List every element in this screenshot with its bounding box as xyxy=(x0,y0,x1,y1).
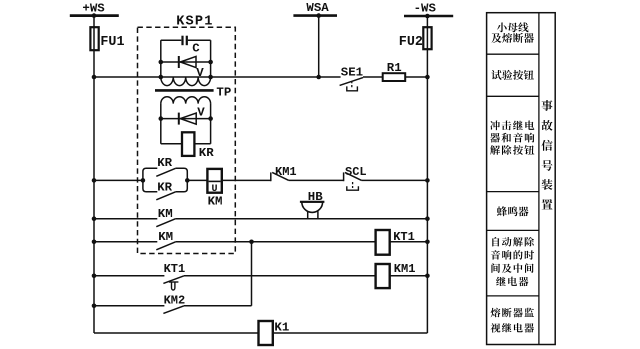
wire upper RC loop xyxy=(160,40,162,77)
legend table frame xyxy=(487,13,556,345)
svg-text:KR: KR xyxy=(199,146,214,160)
wire main horizontal row xyxy=(94,76,341,78)
wire KM coil to KM1 contact xyxy=(222,179,271,181)
svg-text:FU2: FU2 xyxy=(399,35,423,50)
resistor R1 xyxy=(383,73,406,81)
wire KM2 row xyxy=(94,305,164,307)
contact KR bottom xyxy=(156,192,175,200)
diode V lower xyxy=(178,113,180,125)
wire KT1 contact row xyxy=(94,275,164,277)
legend row 1 text xyxy=(497,22,507,32)
wire bus to KR contacts xyxy=(94,179,143,181)
contact KM row1 xyxy=(156,219,175,227)
svg-text:-WS: -WS xyxy=(414,1,437,15)
svg-text:R1: R1 xyxy=(387,61,402,75)
pushbutton SE1 xyxy=(340,78,363,86)
wire WSA drop xyxy=(318,16,320,77)
relay coil KR xyxy=(182,132,194,156)
svg-text:KM: KM xyxy=(158,207,173,221)
wire right bus vertical xyxy=(426,16,428,333)
transformer TP core xyxy=(155,89,214,92)
buzzer HB xyxy=(302,202,323,212)
wire KM1 to SCL xyxy=(289,179,344,181)
capacitor C xyxy=(181,36,183,46)
svg-text:KM: KM xyxy=(158,230,173,244)
contact KM row2 xyxy=(156,242,175,250)
relay coil K1 xyxy=(259,321,273,345)
transformer TP secondary winding xyxy=(161,97,211,104)
svg-text:KR: KR xyxy=(157,181,172,195)
svg-text:FU1: FU1 xyxy=(100,35,124,50)
wire HB row xyxy=(94,218,157,220)
svg-text:KM: KM xyxy=(208,195,223,209)
wire SCL to right bus xyxy=(362,179,428,181)
node -WS bus xyxy=(404,15,453,18)
legend row 5 text xyxy=(492,237,499,246)
legend row 3 text xyxy=(490,121,500,131)
legend row 6 text xyxy=(491,308,501,318)
node +WS bus xyxy=(70,14,119,17)
KSP1 dashed enclosure xyxy=(138,27,236,253)
legend row 2 text xyxy=(491,70,501,80)
node WSA bus xyxy=(293,14,337,17)
contact KT1 (delayed) xyxy=(163,276,184,284)
fuse FU2 xyxy=(423,27,431,49)
pushbutton SCL (NC) xyxy=(343,172,345,181)
svg-text:WSA: WSA xyxy=(306,1,329,15)
wire to relay coil KR xyxy=(161,143,182,145)
svg-text:SE1: SE1 xyxy=(341,66,363,80)
svg-text:TP: TP xyxy=(216,86,231,100)
svg-text:K1: K1 xyxy=(274,320,289,334)
wire left bus vertical xyxy=(93,16,95,333)
svg-text:KSP1: KSP1 xyxy=(176,14,213,29)
contact KR top xyxy=(156,168,175,176)
svg-text:SCL: SCL xyxy=(345,165,367,179)
svg-text:C: C xyxy=(192,42,200,56)
relay coil KT1 xyxy=(376,230,390,255)
contact KR pair brackets xyxy=(143,168,157,192)
svg-text:KM2: KM2 xyxy=(164,294,186,308)
legend row 4 text xyxy=(497,206,507,216)
svg-text:KT1: KT1 xyxy=(164,262,186,276)
wire upper diode row xyxy=(161,61,211,63)
relay KM (impulse relay, U box) xyxy=(207,169,221,193)
svg-text:U: U xyxy=(211,184,217,195)
svg-text:KR: KR xyxy=(157,156,172,170)
svg-text:HB: HB xyxy=(308,190,323,204)
svg-text:+WS: +WS xyxy=(82,1,105,15)
legend right column text xyxy=(542,100,553,111)
wire secondary loop xyxy=(160,104,162,144)
svg-text:KM1: KM1 xyxy=(275,165,297,179)
contact KM2 xyxy=(163,306,184,314)
diode V upper xyxy=(178,56,180,68)
wire branch vertical xyxy=(251,242,253,306)
svg-text:KM1: KM1 xyxy=(394,262,416,276)
time delay symbol xyxy=(169,281,179,283)
wire KR contacts to KM coil xyxy=(187,179,207,181)
contact KM1 (NC) xyxy=(270,172,272,181)
node loop-main junctions xyxy=(159,75,164,80)
transformer TP primary winding xyxy=(161,77,211,86)
wire bottom row xyxy=(94,332,259,334)
wire KM row2 / KT1 coil row xyxy=(94,241,157,243)
svg-text:V: V xyxy=(197,105,205,119)
relay coil KM1 xyxy=(376,264,390,288)
fuse FU1 xyxy=(90,27,98,50)
